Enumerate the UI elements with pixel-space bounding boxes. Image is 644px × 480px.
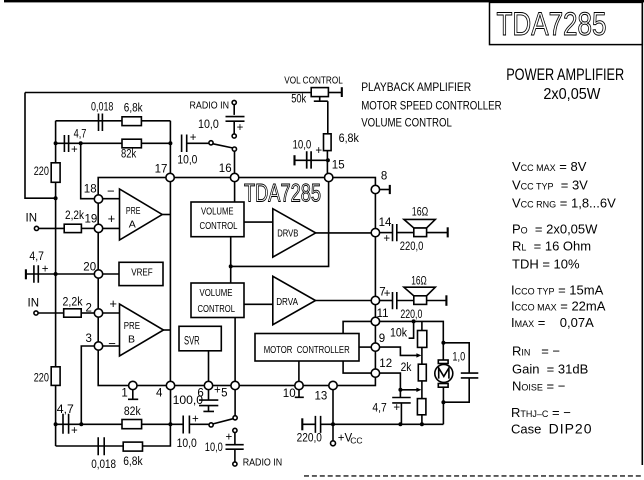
junction 413.6/321.4 xyxy=(412,319,416,323)
svg-text:9: 9 xyxy=(379,333,385,345)
svg-text:8: 8 xyxy=(381,170,387,182)
wiper tick at 10k xyxy=(409,321,415,338)
resistor 6,8k top xyxy=(122,117,141,126)
capacitor 4,7 bottom left xyxy=(63,414,69,434)
pin 13 xyxy=(329,381,337,389)
terminal bar pot right xyxy=(341,87,343,97)
svg-text:2x0,05W: 2x0,05W xyxy=(543,86,601,103)
svg-text:CONTROL: CONTROL xyxy=(198,304,236,315)
svg-text:10,0: 10,0 xyxy=(205,442,223,454)
wire IN2 to resistor xyxy=(38,312,64,314)
terminal bar pin20 stub xyxy=(25,269,27,279)
svg-text:VREF: VREF xyxy=(131,266,153,278)
svg-text:RL = 16 Ohm: RL = 16 Ohm xyxy=(512,239,591,254)
svg-text:16Ω: 16Ω xyxy=(412,206,429,218)
svg-text:MOTOR CONTROLLER: MOTOR CONTROLLER xyxy=(264,345,350,356)
svg-text:+: + xyxy=(383,233,390,245)
svg-text:4: 4 xyxy=(156,388,163,400)
svg-text:RADIO IN: RADIO IN xyxy=(243,457,283,469)
svg-text:10,0: 10,0 xyxy=(177,155,197,167)
svg-text:220,0: 220,0 xyxy=(400,241,424,253)
terminal bar speaker 2 xyxy=(445,295,447,306)
wire 82k row y=143.3 xyxy=(56,142,171,144)
switch top left contact xyxy=(209,141,213,145)
capacitor 10,0 radio in top xyxy=(226,117,245,122)
junction motor top xyxy=(441,341,445,345)
pin 16 xyxy=(230,173,238,181)
wire pin12 net xyxy=(380,373,401,397)
terminal bar pin8 xyxy=(389,185,391,194)
junction 328.5/160.3 xyxy=(326,158,330,162)
wire radio2 contact to cap xyxy=(234,433,236,445)
potentiometer 50k xyxy=(311,88,328,97)
svg-text:CC: CC xyxy=(350,436,362,446)
wire pin3 to preB minus xyxy=(103,345,120,347)
svg-text:POWER AMPLIFIER: POWER AMPLIFIER xyxy=(506,65,624,84)
wire pin3 external drop xyxy=(81,346,94,424)
junction 80.7/143.3 xyxy=(79,141,83,145)
svg-text:+: + xyxy=(393,402,400,414)
wire pin2 to preB plus xyxy=(103,312,120,314)
wire pin11 net xyxy=(380,321,444,360)
wire feedback drop to pin18 xyxy=(81,143,95,198)
svg-text:17: 17 xyxy=(155,164,168,176)
junction 55.6/198.2 xyxy=(54,196,58,200)
svg-text:TDA7285: TDA7285 xyxy=(497,6,607,42)
capacitor 220,0 lower xyxy=(393,292,397,309)
svg-text:4,7: 4,7 xyxy=(29,251,44,263)
ground below 100,0 xyxy=(203,406,214,411)
speaker 2 xyxy=(404,287,435,296)
wire 6,8k to pin15 xyxy=(326,151,328,174)
wire svr rail x=55.6 xyxy=(55,121,57,446)
pin 20 xyxy=(94,270,102,278)
wire 2k down to rail xyxy=(421,381,423,424)
pin 5 xyxy=(231,381,239,389)
svg-text:NOISE = −: NOISE = − xyxy=(512,379,565,394)
IN upper terminal xyxy=(34,226,38,230)
wire radio2 cap to terminal xyxy=(234,449,236,462)
svg-text:220: 220 xyxy=(34,373,49,385)
capacitor 1,0 xyxy=(461,373,479,378)
pin 19 xyxy=(94,224,102,232)
svg-text:13: 13 xyxy=(315,390,328,402)
svg-text:IMAX = 0,07A: IMAX = 0,07A xyxy=(511,315,594,330)
svg-text:PLAYBACK AMPLIFIER: PLAYBACK AMPLIFIER xyxy=(361,80,471,94)
svg-text:ICCO TYP = 15mA: ICCO TYP = 15mA xyxy=(511,283,604,298)
wire pin8 stub xyxy=(380,189,390,191)
wire inner top 0018 row xyxy=(56,120,171,122)
svg-text:4,7: 4,7 xyxy=(74,129,87,141)
svg-text:PRE: PRE xyxy=(126,205,141,217)
svg-text:+: + xyxy=(108,211,116,226)
resistor 2k xyxy=(418,364,426,381)
svg-text:−: − xyxy=(107,183,115,198)
wire drvb to pin14 xyxy=(316,232,372,234)
capacitor 0,018 bottom xyxy=(98,437,104,455)
title box xyxy=(490,2,643,44)
wire preA out to rail xyxy=(162,214,170,216)
speaker 1 xyxy=(404,219,435,228)
pin 7 xyxy=(371,296,379,304)
junction 55.6/424.3 xyxy=(54,422,58,426)
radio in bottom terminal xyxy=(233,462,237,466)
pin 1 xyxy=(129,381,137,389)
pin 8 xyxy=(371,185,379,193)
svg-text:16Ω: 16Ω xyxy=(411,276,427,288)
resistor 2,2k upper xyxy=(64,224,81,232)
svg-text:RIN = −: RIN = − xyxy=(512,344,560,359)
capacitor 10,0 bottom left xyxy=(183,416,189,434)
border top line xyxy=(4,0,644,2)
wire mc bottom to pin12 xyxy=(343,361,371,373)
wire motor to rail xyxy=(442,387,444,424)
svg-text:+: + xyxy=(109,296,117,311)
pin 11 xyxy=(371,317,379,325)
junction 55.6/274 xyxy=(54,272,58,276)
block VOLUME CONTROL 2 xyxy=(191,283,244,318)
svg-text:19: 19 xyxy=(85,214,98,226)
wire pin12 branch to 2k bottom xyxy=(400,389,417,391)
svg-text:+: + xyxy=(214,385,221,397)
junction 333/424.3 xyxy=(331,422,335,426)
svg-text:+: + xyxy=(315,145,322,157)
wire pin7 to cap xyxy=(380,300,392,302)
svg-text:DRVA: DRVA xyxy=(276,296,298,308)
svg-text:100,0: 100,0 xyxy=(173,395,204,407)
wire 4,7 to rail xyxy=(400,403,402,424)
pin 4 xyxy=(166,381,174,389)
op-amp PRE A xyxy=(120,189,163,240)
svg-text:5: 5 xyxy=(221,388,227,400)
svg-text:B: B xyxy=(128,334,135,346)
switch top radio contact xyxy=(232,134,236,138)
junction 170.4/424.3 xyxy=(168,422,172,426)
wire speaker 1 to terminal xyxy=(427,232,448,234)
wire cap to switch contact xyxy=(187,142,209,144)
svg-text:6,8k: 6,8k xyxy=(124,102,143,114)
resistor 82k top xyxy=(122,139,141,148)
svg-text:15: 15 xyxy=(332,159,345,171)
ground pin 10 xyxy=(295,390,304,398)
wire resistor to pin19 xyxy=(81,227,94,229)
resistor 6,8k bottom xyxy=(123,442,142,451)
svg-text:11: 11 xyxy=(377,308,389,320)
svg-text:82k: 82k xyxy=(121,149,136,161)
pin 6 xyxy=(204,381,212,389)
IC box TDA7285 xyxy=(98,178,375,386)
wire cap to speaker 2 xyxy=(397,300,414,302)
wire pot right to terminal xyxy=(328,92,341,94)
wire pin15 internal link xyxy=(231,182,329,267)
svg-text:Case DIP20: Case DIP20 xyxy=(511,421,593,437)
motor M1 xyxy=(438,360,448,364)
svg-text:50k: 50k xyxy=(291,94,306,106)
svg-text:6,8k: 6,8k xyxy=(339,133,360,145)
capacitor 10,0 at pin15 xyxy=(307,151,311,168)
svg-text:4,7: 4,7 xyxy=(57,404,74,416)
capacitor 0,018 top xyxy=(99,114,103,132)
svg-text:2: 2 xyxy=(86,302,92,314)
wire drva to pin7 xyxy=(316,300,372,302)
svg-text:220,0: 220,0 xyxy=(297,432,322,444)
svg-text:16: 16 xyxy=(219,163,232,175)
wire right supply rail xyxy=(303,423,444,425)
wire mc to pin10 xyxy=(298,361,300,381)
svg-text:VOLUME CONTROL: VOLUME CONTROL xyxy=(361,116,452,130)
wire svr to pin6 xyxy=(208,351,210,381)
wire left lower rail y=424.3 xyxy=(56,423,209,425)
block VREF xyxy=(119,262,163,285)
svg-text:10k: 10k xyxy=(390,327,407,339)
switch top lower contact xyxy=(232,147,236,151)
border bottom dashed line xyxy=(304,475,643,477)
wire 10k top hook xyxy=(421,321,423,330)
wire pin4 drop xyxy=(170,390,172,425)
capacitor 4,7 at pin20 xyxy=(34,265,38,283)
wire wiper down to 6,8k xyxy=(327,101,329,134)
junction 55.6/143.3 xyxy=(54,141,58,145)
wire resistor to pin2 xyxy=(81,312,94,314)
junction 230.7/266.4 xyxy=(229,264,233,268)
wire pin16 to volume control 1 xyxy=(234,182,236,202)
capacitor 220,0 supply xyxy=(315,416,320,433)
border right line xyxy=(641,2,643,465)
junction 170.4/143.3 xyxy=(168,141,172,145)
svg-text:0,018: 0,018 xyxy=(91,101,113,113)
svg-text:10,0: 10,0 xyxy=(177,438,197,450)
resistor 6,8k vertical xyxy=(324,134,332,151)
svg-text:3: 3 xyxy=(86,333,92,345)
junction 81.3/424.3 xyxy=(79,422,83,426)
svg-text:PRE: PRE xyxy=(124,320,140,332)
wire mc top to pin11 xyxy=(343,321,371,333)
svg-text:PO = 2x0,05W: PO = 2x0,05W xyxy=(512,221,598,236)
block MOTOR CONTROLLER xyxy=(255,334,359,362)
svg-text:220,0: 220,0 xyxy=(400,309,422,321)
capacitor 100,0 xyxy=(199,400,218,406)
svg-text:18: 18 xyxy=(84,184,97,196)
terminal bar speaker 1 xyxy=(447,227,449,237)
ground pin 1 xyxy=(128,390,138,400)
resistor 220 upper xyxy=(51,163,60,183)
svg-text:20: 20 xyxy=(83,262,96,274)
capacitor 4,7 at pin12 xyxy=(392,398,411,403)
resistor 82k bottom xyxy=(122,420,142,429)
capacitor 10,0 radio in bottom xyxy=(226,445,244,450)
pin 10 xyxy=(295,381,303,389)
wire cap to speaker 1 xyxy=(397,232,414,234)
svg-text:2,2k: 2,2k xyxy=(65,210,84,222)
svg-text:82k: 82k xyxy=(124,406,141,418)
svg-text:VOLUME: VOLUME xyxy=(200,288,233,299)
svg-text:MOTOR SPEED CONTROLLER: MOTOR SPEED CONTROLLER xyxy=(361,98,502,112)
resistor 10k xyxy=(418,331,427,348)
pin 17 xyxy=(166,173,174,181)
arrowhead pin9 wiper xyxy=(416,353,421,357)
pin 3 xyxy=(94,342,102,350)
op-amp PRE B xyxy=(120,304,164,356)
svg-text:14: 14 xyxy=(379,217,392,229)
wire 10k to 2k xyxy=(421,347,423,364)
svg-text:2k: 2k xyxy=(401,362,412,374)
svg-text:1: 1 xyxy=(121,388,127,400)
wire 10,0 cap to junction xyxy=(295,159,328,161)
capacitor 10,0 left of switch xyxy=(182,135,187,153)
svg-text:IN: IN xyxy=(26,212,38,224)
svg-text:RTHJ–C = −: RTHJ–C = − xyxy=(511,405,571,420)
wire corner to pin17 xyxy=(169,121,171,174)
block VOLUME CONTROL 1 xyxy=(191,202,244,237)
junction 400.4/389.8 xyxy=(398,388,402,392)
switch bottom upper contact xyxy=(233,416,237,420)
svg-text:10,0: 10,0 xyxy=(198,119,219,131)
svg-text:IN: IN xyxy=(28,297,40,309)
pin 2 xyxy=(94,309,102,317)
pin 15 xyxy=(325,173,333,181)
wire pin5 to switch xyxy=(234,390,236,416)
svg-text:VCC TYP = 3V: VCC TYP = 3V xyxy=(512,177,588,192)
svg-text:DRVB: DRVB xyxy=(277,228,298,240)
svg-text:VOL CONTROL: VOL CONTROL xyxy=(284,76,343,87)
wire motor cap branch xyxy=(443,343,469,402)
svg-text:Gain = 31dB: Gain = 31dB xyxy=(512,362,588,377)
wire pin19 to preA plus xyxy=(103,227,120,229)
pin 9 xyxy=(371,343,379,351)
resistor 220 lower xyxy=(51,367,60,386)
wire mc to pin9 xyxy=(359,346,371,348)
op-amp DRVB xyxy=(273,209,316,257)
svg-text:+: + xyxy=(190,132,197,144)
svg-text:A: A xyxy=(129,219,136,231)
svg-text:−: − xyxy=(108,336,116,351)
svg-text:+: + xyxy=(71,144,78,156)
wire radio cap to contact xyxy=(233,122,235,134)
terminal vcc xyxy=(331,441,336,446)
resistor 2,2k lower xyxy=(64,309,81,317)
radio in top terminal xyxy=(232,100,236,104)
wire radio terminal to cap xyxy=(233,105,235,115)
wire pin20 row xyxy=(26,273,94,275)
svg-text:12: 12 xyxy=(379,358,392,370)
wire top volume line xyxy=(25,92,311,94)
svg-text:ICCO MAX = 22mA: ICCO MAX = 22mA xyxy=(511,299,606,314)
svg-text:+: + xyxy=(237,122,244,134)
svg-text:VCC MAX = 8V: VCC MAX = 8V xyxy=(512,159,587,174)
svg-text:+: + xyxy=(42,264,49,276)
svg-text:+: + xyxy=(192,413,199,425)
wire feedback rail pin17 to pin4 xyxy=(169,182,171,381)
switch top arm xyxy=(213,144,232,148)
arrowhead pin12 branch xyxy=(416,388,421,392)
junction motor bottom xyxy=(441,400,445,404)
svg-text:4,7: 4,7 xyxy=(372,403,386,415)
resistor lower third xyxy=(417,399,426,415)
op-amp DRVA xyxy=(273,276,316,324)
svg-text:+: + xyxy=(71,425,78,437)
wire contact to pin16 xyxy=(234,151,236,173)
block SVR xyxy=(179,326,221,351)
junction 400.4/424.3 xyxy=(398,422,402,426)
svg-text:VOLUME: VOLUME xyxy=(201,206,234,217)
pin 14 xyxy=(371,228,379,236)
wire pin6 to cap 100,0 xyxy=(208,390,210,400)
wire speaker 2 to terminal xyxy=(427,300,446,302)
switch bottom arm xyxy=(213,419,233,424)
wire vc1 to drvb xyxy=(244,221,273,223)
svg-text:10: 10 xyxy=(283,388,296,400)
wire IN to resistor xyxy=(39,227,65,229)
svg-text:0,018: 0,018 xyxy=(91,459,116,471)
wire vc2 to drva xyxy=(244,303,273,305)
svg-text:10,0: 10,0 xyxy=(293,140,312,152)
wire pin18 to preA minus xyxy=(103,198,120,200)
IN lower terminal xyxy=(34,311,38,315)
capacitor 220,0 upper xyxy=(393,224,397,241)
wire vc2 to pin5 xyxy=(234,318,236,382)
capacitor 4,7 top xyxy=(64,135,68,152)
wire bottom feedback row xyxy=(56,424,171,446)
svg-text:VCC RNG = 1,8...6V: VCC RNG = 1,8...6V xyxy=(512,196,616,211)
pin 18 xyxy=(94,195,102,203)
junction 421.9/424.3 xyxy=(420,422,424,426)
svg-text:RADIO IN: RADIO IN xyxy=(190,99,230,111)
pot wiper xyxy=(314,97,328,102)
svg-text:TDA7285: TDA7285 xyxy=(244,180,321,208)
svg-text:1,0: 1,0 xyxy=(452,352,465,364)
wire pin20 to vref xyxy=(103,273,119,275)
wire pin13 to vcc terminal xyxy=(332,390,334,441)
svg-text:220: 220 xyxy=(34,166,49,178)
switch bottom radio contact xyxy=(233,428,237,432)
wire preB out to rail xyxy=(164,329,171,331)
wire pin9 wiper arrow xyxy=(380,347,418,355)
svg-text:TDH = 10%: TDH = 10% xyxy=(512,257,580,272)
switch bottom left contact xyxy=(209,423,213,427)
terminal bar left of 10,0 xyxy=(293,155,295,165)
terminal bar supply left xyxy=(301,418,303,430)
wire left outer loop xyxy=(25,93,56,199)
wire vc1 to vc2 xyxy=(230,237,232,283)
svg-text:2,2k: 2,2k xyxy=(63,297,83,309)
svg-text:+: + xyxy=(384,288,391,300)
svg-text:SVR: SVR xyxy=(184,335,200,347)
pin 12 xyxy=(371,369,379,377)
wire pin14 to cap xyxy=(380,232,392,234)
svg-text:6,8k: 6,8k xyxy=(123,456,143,468)
svg-text:CONTROL: CONTROL xyxy=(200,221,238,232)
svg-text:+: + xyxy=(226,431,233,443)
